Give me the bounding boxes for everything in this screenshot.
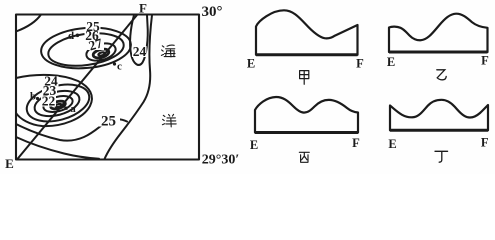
label backgrounds <box>41 22 147 127</box>
character ding <box>435 151 448 162</box>
svg-text:25: 25 <box>101 113 116 129</box>
svg-text:E: E <box>387 55 395 69</box>
contour 25 upper ring <box>39 24 132 72</box>
point c dot <box>113 62 116 65</box>
profile bing outline <box>255 97 358 133</box>
svg-text:29°30′: 29°30′ <box>202 153 240 168</box>
contour 25 sweep <box>16 119 127 140</box>
contour 24 hairpin near F <box>130 15 148 65</box>
contour bottom corner arc <box>16 137 99 159</box>
svg-text:E: E <box>388 137 396 151</box>
coastline <box>105 15 153 159</box>
contour 27 upper ring <box>84 40 117 63</box>
contour 23 lower ring <box>32 86 82 120</box>
ocean character yang <box>162 114 176 127</box>
svg-text:24: 24 <box>133 44 147 59</box>
point a dot <box>64 107 67 110</box>
svg-text:E: E <box>250 138 258 152</box>
svg-text:F: F <box>481 54 489 68</box>
svg-text:d: d <box>68 30 74 42</box>
contour 27 inner core <box>92 48 110 60</box>
character yi <box>437 70 446 80</box>
svg-text:E: E <box>5 156 14 171</box>
contour lower inner core <box>50 100 66 111</box>
point d dot <box>76 34 80 38</box>
contour 22 lower ring <box>42 93 75 115</box>
point b dot <box>36 97 39 100</box>
svg-text:a: a <box>70 103 76 115</box>
profile letters <box>247 54 489 152</box>
profile yi baseline <box>389 51 488 54</box>
svg-text:c: c <box>117 60 122 72</box>
profile ding baseline <box>390 129 488 132</box>
svg-text:b: b <box>30 91 36 103</box>
svg-text:30°: 30° <box>202 4 223 20</box>
contour top-left corner <box>16 15 41 32</box>
map border <box>16 15 199 160</box>
EF section line <box>17 15 137 160</box>
svg-text:27: 27 <box>87 35 104 53</box>
profile bing baseline <box>255 131 358 134</box>
profile jia baseline <box>256 53 358 56</box>
profile jia outline <box>256 10 358 55</box>
profile ding outline <box>390 100 488 131</box>
svg-text:F: F <box>139 1 147 16</box>
svg-text:F: F <box>352 136 360 150</box>
contour 24 lower ring <box>23 78 94 127</box>
svg-text:22: 22 <box>42 93 56 108</box>
svg-text:F: F <box>356 56 364 70</box>
contour 26 upper ring <box>46 29 126 70</box>
svg-text:E: E <box>247 56 255 70</box>
map texts <box>5 1 239 172</box>
sea character hai <box>161 45 175 57</box>
character bing <box>299 152 309 162</box>
character jia <box>300 71 309 85</box>
profile yi outline <box>389 14 488 52</box>
contour lower outer arc <box>16 75 92 126</box>
svg-text:F: F <box>481 135 489 149</box>
